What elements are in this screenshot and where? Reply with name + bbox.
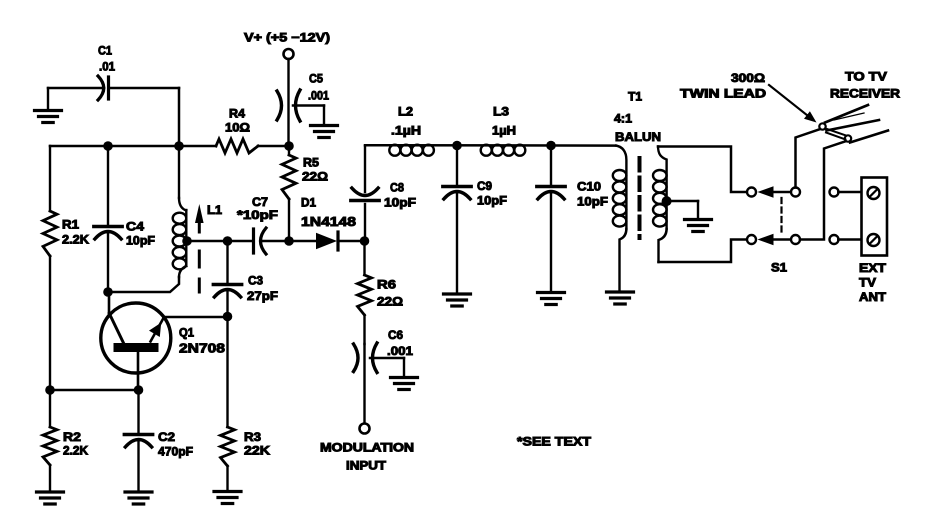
wire emitter row bbox=[50, 389, 139, 392]
svg-text:S1: S1 bbox=[771, 261, 787, 275]
ground bbox=[35, 88, 62, 123]
svg-text:C8: C8 bbox=[390, 181, 404, 195]
svg-text:R4: R4 bbox=[229, 107, 245, 121]
ground bbox=[37, 465, 64, 504]
ground bbox=[125, 492, 152, 504]
wire bbox=[110, 88, 179, 146]
svg-text:27pF: 27pF bbox=[247, 289, 278, 303]
label to tv receiver bbox=[830, 70, 900, 101]
svg-text:10pF: 10pF bbox=[384, 196, 416, 210]
V+ terminal bbox=[244, 31, 330, 60]
svg-text:C3: C3 bbox=[248, 274, 263, 288]
node bbox=[284, 141, 294, 151]
switch S1 pole bbox=[791, 235, 800, 244]
ground bbox=[391, 358, 418, 390]
L1 tuning arrow (dashed) bbox=[195, 204, 204, 292]
svg-text:.001: .001 bbox=[308, 89, 329, 103]
resistor R2 bbox=[43, 390, 88, 465]
resistor R1 bbox=[43, 211, 89, 256]
ground bbox=[214, 466, 241, 504]
inductor L2 bbox=[389, 105, 434, 156]
svg-text:.1µH: .1µH bbox=[391, 124, 421, 138]
wire RF rail bbox=[365, 144, 616, 147]
node bbox=[223, 236, 233, 246]
resistor R4 bbox=[216, 107, 258, 154]
svg-text:22K: 22K bbox=[244, 444, 270, 458]
svg-text:10Ω: 10Ω bbox=[225, 121, 250, 135]
inductor L3 bbox=[481, 105, 526, 156]
svg-text:L2: L2 bbox=[398, 105, 413, 119]
capacitor C1 bbox=[98, 44, 115, 101]
switch S1 arrow bbox=[758, 234, 792, 245]
svg-text:C5: C5 bbox=[309, 72, 323, 86]
svg-text:C10: C10 bbox=[577, 180, 601, 194]
svg-text:TO TV: TO TV bbox=[845, 70, 888, 84]
svg-text:INPUT: INPUT bbox=[346, 459, 387, 473]
diode D1 1N4148 bbox=[289, 196, 364, 251]
node bbox=[103, 141, 113, 151]
svg-text:470pF: 470pF bbox=[158, 445, 193, 459]
svg-text:T1: T1 bbox=[628, 90, 642, 104]
capacitor C3 bbox=[213, 241, 278, 317]
svg-text:R2: R2 bbox=[63, 430, 81, 444]
svg-text:L1: L1 bbox=[207, 203, 222, 217]
capacitor C8 bbox=[351, 146, 416, 241]
svg-text:2.2K: 2.2K bbox=[63, 444, 88, 458]
wire secondary top bbox=[658, 147, 747, 193]
node bbox=[284, 236, 294, 246]
svg-text:4:1: 4:1 bbox=[614, 112, 632, 126]
capacitor C5 feedthrough bbox=[277, 72, 329, 122]
svg-text:22Ω: 22Ω bbox=[302, 170, 328, 184]
svg-text:C1: C1 bbox=[98, 44, 112, 58]
node bbox=[134, 385, 144, 395]
svg-text:ANT: ANT bbox=[859, 290, 887, 304]
svg-text:22Ω: 22Ω bbox=[377, 295, 403, 309]
svg-text:2.2K: 2.2K bbox=[62, 233, 89, 247]
wire collector bbox=[164, 316, 228, 319]
svg-text:C2: C2 bbox=[158, 430, 175, 444]
twin lead ribbon bbox=[825, 105, 888, 143]
ground bbox=[311, 106, 338, 138]
svg-text:1N4148: 1N4148 bbox=[301, 214, 356, 229]
svg-text:10pF: 10pF bbox=[577, 195, 608, 209]
svg-text:R5: R5 bbox=[303, 156, 319, 170]
svg-text:V+ (+5 −12V): V+ (+5 −12V) bbox=[244, 31, 330, 45]
svg-text:D1: D1 bbox=[301, 196, 316, 210]
modulation input terminal bbox=[320, 424, 414, 473]
capacitor C10 bbox=[537, 146, 608, 293]
svg-text:.001: .001 bbox=[387, 344, 413, 358]
T1 center tap bbox=[662, 196, 698, 219]
svg-text:2N708: 2N708 bbox=[179, 341, 225, 356]
svg-text:R6: R6 bbox=[377, 278, 396, 292]
ground bbox=[444, 294, 471, 306]
svg-text:.01: .01 bbox=[99, 60, 115, 74]
capacitor C7 bbox=[228, 195, 290, 254]
wire secondary bottom bbox=[659, 240, 748, 263]
wire top rail bbox=[50, 145, 216, 148]
node bbox=[546, 141, 556, 151]
svg-text:R3: R3 bbox=[244, 430, 261, 444]
label arrow 300 ohm twin lead bbox=[680, 71, 817, 123]
wire to twin lead bottom bbox=[800, 142, 845, 240]
resistor R6 bbox=[358, 241, 404, 344]
capacitor C2 bbox=[124, 390, 193, 492]
wire bbox=[49, 146, 51, 211]
T1 core (dashed) bbox=[638, 158, 642, 238]
node bbox=[174, 141, 184, 151]
svg-text:C7: C7 bbox=[252, 195, 268, 209]
svg-text:MODULATION: MODULATION bbox=[320, 441, 414, 455]
svg-text:R1: R1 bbox=[62, 218, 79, 232]
wire bbox=[48, 87, 104, 90]
wire bbox=[49, 256, 51, 390]
svg-text:300Ω: 300Ω bbox=[731, 71, 765, 85]
node bbox=[103, 287, 113, 297]
node bbox=[452, 141, 462, 151]
wire bbox=[258, 145, 289, 148]
svg-text:C4: C4 bbox=[126, 220, 144, 234]
wire base bbox=[108, 277, 179, 292]
switch S1 contact bbox=[747, 235, 756, 244]
wire to twin lead top bbox=[796, 130, 820, 188]
ext ant terminals bbox=[830, 188, 867, 245]
svg-text:10pF: 10pF bbox=[477, 194, 507, 208]
node bbox=[45, 385, 55, 395]
transformer T1 primary bbox=[613, 90, 661, 293]
svg-text:TV: TV bbox=[859, 276, 877, 290]
ground bbox=[607, 292, 634, 304]
svg-text:BALUN: BALUN bbox=[615, 130, 661, 144]
node bbox=[360, 236, 370, 246]
note see text bbox=[517, 435, 592, 449]
svg-text:C9: C9 bbox=[477, 179, 492, 193]
capacitor C6 feedthrough bbox=[354, 328, 414, 424]
svg-text:TWIN LEAD: TWIN LEAD bbox=[680, 87, 766, 101]
ground bbox=[685, 220, 712, 232]
switch S1 arrow bbox=[758, 186, 792, 197]
ground bbox=[538, 293, 565, 305]
svg-text:C6: C6 bbox=[388, 328, 403, 342]
S1 link (dashed) bbox=[771, 198, 787, 275]
twin lead conductor ends bbox=[819, 123, 851, 141]
node on L1 bbox=[182, 236, 192, 246]
resistor R3 bbox=[221, 317, 271, 467]
capacitor C9 bbox=[443, 146, 507, 295]
switch S1 contact bbox=[747, 188, 756, 197]
switch S1 pole bbox=[791, 188, 800, 197]
transistor Q1 2N708 bbox=[101, 292, 225, 390]
svg-text:RECEIVER: RECEIVER bbox=[830, 87, 900, 101]
node bbox=[223, 312, 233, 322]
svg-text:*SEE TEXT: *SEE TEXT bbox=[517, 435, 592, 449]
svg-text:*10pF: *10pF bbox=[237, 208, 278, 222]
svg-text:L3: L3 bbox=[493, 105, 509, 119]
inductor L1 bbox=[173, 146, 223, 277]
wire bbox=[287, 59, 289, 146]
capacitor C4 bbox=[94, 146, 155, 292]
resistor R5 bbox=[282, 146, 328, 241]
svg-text:EXT: EXT bbox=[859, 261, 887, 275]
ext ant terminal block bbox=[859, 178, 887, 305]
svg-text:10pF: 10pF bbox=[126, 234, 155, 248]
transformer T1 secondary bbox=[653, 147, 667, 263]
wire bbox=[187, 240, 228, 243]
svg-text:1µH: 1µH bbox=[492, 124, 516, 138]
svg-text:Q1: Q1 bbox=[179, 326, 194, 340]
